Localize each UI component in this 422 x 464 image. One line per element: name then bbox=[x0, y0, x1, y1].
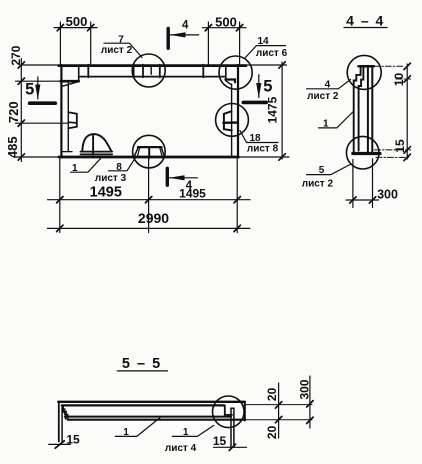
svg-text:20: 20 bbox=[265, 387, 279, 401]
panel bottom edge bbox=[59, 156, 239, 159]
callout circle C2 top-right corner bbox=[219, 56, 252, 89]
right notch inner line bbox=[223, 121, 237, 124]
dim 500 right extension a bbox=[207, 22, 209, 65]
section mark 4 top bar bbox=[166, 29, 169, 49]
s55 left fold step b bbox=[65, 409, 68, 420]
s55 right dim 15 line bbox=[214, 446, 247, 448]
svg-text:4: 4 bbox=[186, 180, 193, 192]
svg-text:2990: 2990 bbox=[138, 210, 169, 226]
svg-text:1: 1 bbox=[123, 427, 129, 438]
callout circle C4 bottom arch bbox=[133, 135, 166, 168]
section mark 4 top arrowhead bbox=[170, 32, 186, 37]
tick s44 300 a bbox=[350, 197, 356, 203]
leader 14 bbox=[245, 46, 286, 59]
top-right corner box left edge bbox=[225, 66, 227, 79]
svg-text:5 – 5: 5 – 5 bbox=[122, 356, 162, 372]
s44 top edge dash extension bbox=[374, 65, 404, 67]
dim 2990 line bbox=[48, 227, 251, 229]
s55 tick line y404.6 bbox=[246, 404, 313, 406]
tick 1495 a bbox=[57, 197, 63, 203]
rounded arch base band bottom bbox=[81, 153, 113, 155]
left notch outline bbox=[68, 112, 77, 128]
rounded arch base band top bbox=[81, 151, 113, 153]
tick s44 y157.4 bbox=[404, 154, 410, 160]
band tick x203 bbox=[202, 65, 204, 78]
left vertical dimension line bbox=[20, 59, 22, 162]
svg-text:300: 300 bbox=[298, 379, 312, 399]
tick 2990 b bbox=[234, 225, 240, 231]
dim 500 left extension a bbox=[59, 22, 61, 64]
dim 500 right extension b bbox=[239, 22, 241, 64]
s55 right hook v2 bbox=[230, 408, 232, 447]
title 5-5 underline bbox=[117, 370, 167, 372]
svg-text:лист 2: лист 2 bbox=[307, 91, 339, 102]
section mark 5 right arrowhead bbox=[256, 83, 261, 98]
svg-text:лист 8: лист 8 bbox=[247, 143, 279, 154]
s44 top edge bbox=[359, 65, 374, 68]
tick left dim y123 bbox=[18, 120, 24, 126]
title 4-4 underline bbox=[344, 27, 387, 29]
svg-text:15: 15 bbox=[393, 139, 407, 153]
svg-text:300: 300 bbox=[377, 188, 398, 202]
extension x59.8 bottom bbox=[59, 159, 61, 233]
s55 left lip inner bbox=[61, 405, 63, 441]
svg-text:720: 720 bbox=[6, 101, 21, 123]
top rib band bottom line bbox=[79, 76, 226, 78]
rounded arch outline bbox=[82, 134, 111, 151]
callout circle C7 bbox=[213, 396, 245, 428]
s55 dim line A bbox=[278, 383, 280, 438]
leader 4 s44 bbox=[307, 80, 351, 89]
s44 dim 300 line bbox=[346, 199, 379, 201]
s44 dash y150 bbox=[375, 149, 411, 151]
svg-text:8: 8 bbox=[116, 162, 122, 173]
tick s44 y66.3 bbox=[404, 63, 410, 69]
band short center tick bbox=[150, 68, 152, 75]
extension x237.2 bottom bbox=[236, 159, 238, 233]
s44 dash y79 bbox=[396, 78, 411, 80]
tick s44 y79 bbox=[404, 76, 410, 82]
svg-text:270: 270 bbox=[9, 45, 23, 65]
svg-text:485: 485 bbox=[5, 136, 20, 158]
s44 web right line bbox=[371, 66, 373, 152]
extension y123 bbox=[16, 122, 69, 124]
callout circle C1 top band bbox=[132, 54, 165, 87]
squared arch inner right line bbox=[160, 148, 162, 156]
svg-text:20: 20 bbox=[265, 425, 279, 439]
leader 8 bbox=[109, 157, 137, 171]
right rib inner line bbox=[231, 84, 233, 156]
tick 1495 c bbox=[234, 197, 240, 203]
rounded arch centerline bbox=[92, 134, 94, 155]
left bottom short line bbox=[62, 151, 73, 153]
right notch outline bbox=[224, 111, 232, 130]
svg-text:1495: 1495 bbox=[90, 185, 122, 201]
s55 right hook v1 bbox=[225, 405, 232, 415]
svg-text:1: 1 bbox=[183, 427, 189, 438]
svg-text:7: 7 bbox=[118, 34, 124, 45]
svg-text:4: 4 bbox=[325, 80, 331, 91]
leader 7 bbox=[104, 43, 142, 57]
leader 18 bbox=[240, 131, 278, 143]
s55 line L2 bbox=[62, 404, 224, 406]
left notch inner line bbox=[68, 121, 77, 124]
dim 500 left extension b bbox=[90, 22, 92, 64]
section mark 4 bottom arrowhead bbox=[169, 175, 185, 180]
svg-text:5: 5 bbox=[263, 78, 272, 96]
panel top edge bbox=[59, 64, 246, 67]
svg-text:14: 14 bbox=[257, 36, 269, 47]
tick 1475 bottom bbox=[279, 154, 285, 160]
tick B y420.3 bbox=[307, 417, 313, 423]
section mark 5 left arrowhead bbox=[35, 85, 40, 100]
s55 right hook v3 bbox=[231, 408, 234, 447]
tick 500R a bbox=[205, 25, 211, 31]
svg-text:5: 5 bbox=[25, 81, 34, 99]
s44 dim 300 extension left bbox=[352, 160, 354, 208]
s55 line L3 bbox=[65, 416, 231, 418]
s55 dim line B bbox=[309, 376, 311, 428]
svg-text:500: 500 bbox=[66, 14, 88, 29]
top-left corner box bottom bar bbox=[61, 80, 79, 83]
panel right edge bbox=[237, 65, 239, 158]
s55 top line L1 bbox=[58, 401, 245, 403]
s44 bottom bar bbox=[353, 152, 380, 155]
tick left15 bbox=[55, 441, 64, 448]
svg-text:1495: 1495 bbox=[179, 187, 206, 201]
section mark 5 right bar bbox=[243, 101, 266, 105]
tick A y404.9 bbox=[275, 402, 281, 408]
extension y81 bbox=[16, 80, 61, 82]
slant below corner box bbox=[63, 82, 78, 86]
leader 1 s44 bbox=[319, 112, 354, 128]
tick s44 300 b bbox=[369, 197, 375, 203]
band tick x133.5 bbox=[133, 65, 135, 78]
tick 500R b bbox=[236, 25, 242, 31]
svg-text:1: 1 bbox=[72, 163, 78, 174]
extension bottom edge right bbox=[239, 156, 289, 158]
dim 500 right line bbox=[203, 27, 247, 29]
panel left edge bbox=[60, 65, 62, 158]
svg-text:500: 500 bbox=[215, 14, 237, 29]
tick 500L b bbox=[88, 24, 94, 30]
extension x148.5 centerline bottom bbox=[148, 159, 150, 233]
extension top edge to left dim bbox=[21, 64, 59, 66]
section mark 4 top arrow line bbox=[170, 34, 199, 36]
band tick x88 bbox=[87, 65, 89, 78]
s55 line L4 bbox=[68, 419, 245, 421]
band tick x143 bbox=[142, 65, 144, 78]
s44 staircase outer bbox=[354, 67, 361, 152]
extension bottom edge to left dim bbox=[16, 156, 60, 158]
section mark 5 left arrow line bbox=[37, 77, 39, 99]
squared arch left slant bbox=[134, 147, 138, 156]
svg-text:лист 3: лист 3 bbox=[95, 173, 127, 184]
svg-text:лист 6: лист 6 bbox=[256, 48, 288, 59]
top-right corner slant bbox=[226, 81, 231, 85]
svg-text:1475: 1475 bbox=[265, 96, 279, 123]
s55 tick line y419.8 bbox=[246, 419, 313, 421]
tick A y419.6 bbox=[275, 416, 281, 422]
band tick x160 bbox=[159, 65, 161, 78]
tick B y403.8 bbox=[307, 401, 313, 407]
left inner line bbox=[67, 82, 69, 152]
leader 1 лист4 s55 bbox=[172, 425, 214, 436]
tick 500L a bbox=[57, 24, 63, 30]
leader 5 s44 bbox=[307, 164, 352, 175]
svg-text:5: 5 bbox=[319, 165, 325, 176]
s55 right end cap bbox=[244, 402, 246, 421]
callout circle C3 right notch bbox=[216, 104, 249, 137]
s55 left fold step a bbox=[63, 407, 66, 419]
squared arch inner left line bbox=[138, 148, 140, 156]
s44 right dim line bbox=[406, 64, 408, 159]
s55 left dim 15 line bbox=[49, 443, 71, 445]
leader 1 s55 bbox=[115, 418, 160, 437]
svg-text:10: 10 bbox=[392, 73, 406, 87]
svg-text:лист 2: лист 2 bbox=[302, 179, 334, 190]
tick left dim y65 bbox=[18, 62, 24, 68]
dim 500 left line bbox=[54, 27, 97, 29]
top-left corner box right edge bbox=[78, 66, 80, 82]
svg-text:1: 1 bbox=[323, 118, 329, 129]
section mark 4 bottom arrow line bbox=[169, 177, 197, 179]
section mark 5 right arrow line bbox=[258, 75, 260, 98]
tick s44 y150 bbox=[404, 147, 410, 153]
tick right15 bbox=[229, 444, 235, 450]
section mark 4 bottom bar bbox=[166, 168, 169, 185]
svg-text:4 – 4: 4 – 4 bbox=[346, 13, 385, 29]
tick 1495 b bbox=[145, 197, 151, 203]
leader 1 plan bbox=[71, 158, 101, 172]
tick 2990 a bbox=[57, 225, 63, 231]
squared arch top bar bbox=[138, 146, 162, 148]
section mark 5 left bar bbox=[30, 101, 56, 105]
callout circle C5 bbox=[347, 55, 381, 89]
s44 dim 300 extension right bbox=[372, 159, 374, 208]
svg-text:15: 15 bbox=[66, 432, 80, 446]
svg-text:лист 4: лист 4 bbox=[165, 443, 197, 454]
squared arch right slant bbox=[161, 147, 164, 156]
dim 1495 line bbox=[48, 199, 251, 201]
tick left dim y157 bbox=[18, 154, 24, 160]
svg-text:15: 15 bbox=[213, 434, 227, 448]
top-right corner hook bar bbox=[225, 80, 235, 83]
svg-text:лист 2: лист 2 bbox=[101, 45, 133, 56]
squared arch centerline bbox=[148, 147, 150, 158]
s44 staircase inner bbox=[359, 67, 364, 150]
s44 dash y157.4 bbox=[376, 156, 411, 158]
tick left dim y81 bbox=[18, 78, 24, 84]
s44 web left line bbox=[367, 66, 369, 152]
dim 1475 line bbox=[281, 62, 283, 159]
s55 left lip outer bbox=[58, 402, 60, 442]
svg-text:4: 4 bbox=[182, 20, 189, 32]
callout circle C6 bbox=[346, 136, 379, 169]
tick 1475 top bbox=[279, 62, 285, 68]
extension top edge right bbox=[239, 64, 287, 66]
